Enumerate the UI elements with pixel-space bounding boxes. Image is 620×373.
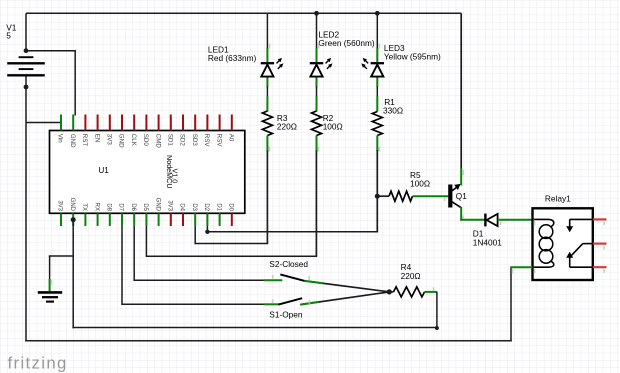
label NodeMCU	[165, 155, 174, 189]
pin CLK (U1 top 7)	[130, 115, 137, 147]
ground lead	[49, 279, 51, 291]
wire battery- column down	[25, 86, 27, 341]
svg-text:RSV: RSV	[203, 134, 210, 148]
svg-text:U1: U1	[99, 166, 110, 175]
relay Relay1 body	[533, 208, 593, 280]
svg-text:GND: GND	[118, 134, 125, 148]
label LED3	[384, 43, 441, 61]
transistor Q1	[448, 184, 461, 208]
wire D1 to Relay1	[498, 219, 533, 221]
pin GND (U1 top 6)	[118, 115, 125, 149]
svg-text:D2: D2	[203, 203, 209, 211]
pin CMD (U1 top 9)	[154, 115, 161, 149]
junction switches/R4	[387, 289, 392, 294]
svg-text:D0: D0	[228, 203, 234, 211]
svg-text:5: 5	[6, 30, 11, 40]
svg-text:RST: RST	[81, 134, 88, 147]
wire R5 to Q1 base	[413, 195, 449, 197]
relay coil pin bottom-left	[510, 266, 532, 268]
connection ticks	[52, 44, 605, 304]
svg-text:3V3: 3V3	[106, 134, 113, 146]
svg-text:100Ω: 100Ω	[323, 121, 343, 131]
wire D3 to R3 column	[195, 226, 268, 244]
wire relay coil return up	[510, 267, 512, 341]
ground	[38, 292, 62, 301]
pin D4 (U1 bottom 11)	[179, 203, 185, 226]
label Relay1	[545, 194, 571, 204]
pin D2 (U1 bottom 13)	[203, 203, 209, 226]
svg-text:A0: A0	[228, 134, 235, 142]
pin EN (U1 top 4)	[93, 115, 100, 143]
pin D1 (U1 bottom 14)	[215, 203, 221, 226]
switch S1 blade	[278, 298, 302, 304]
pin RX (U1 bottom 4)	[93, 203, 99, 226]
label Q1	[456, 191, 467, 201]
svg-text:100Ω: 100Ω	[410, 179, 430, 189]
svg-text:D4: D4	[179, 203, 185, 211]
switch S1 right wire to junction	[300, 292, 389, 305]
svg-text:SD3: SD3	[191, 134, 198, 147]
svg-text:3V3: 3V3	[57, 200, 63, 211]
pin Vin (U1 top 1)	[57, 115, 64, 144]
pin 3V3 (U1 bottom 1)	[57, 200, 63, 226]
svg-text:D6: D6	[130, 203, 136, 211]
wire Vin branch	[26, 122, 61, 124]
svg-text:EN: EN	[93, 134, 100, 143]
wire LED3 column	[376, 13, 378, 111]
wire R3 lead bottom	[266, 136, 268, 244]
wire R1 lead bottom	[376, 136, 378, 152]
pin SD3 (U1 top 12)	[191, 115, 198, 147]
wire battery+ branch down to U1 GND pin	[74, 50, 76, 116]
pin D5 (U1 bottom 8)	[142, 203, 148, 226]
label V1.0	[171, 169, 180, 184]
svg-text:fritzing: fritzing	[8, 353, 68, 372]
wire LED1 column	[266, 13, 268, 111]
wire R2 lead bottom	[316, 136, 318, 152]
LED LED2	[310, 58, 333, 77]
wire D5 to R2 column	[146, 226, 317, 257]
label R4	[401, 262, 421, 281]
svg-text:Relay1: Relay1	[545, 194, 571, 204]
wire GND bottom horizontal	[72, 327, 437, 329]
resistor R2	[312, 111, 322, 136]
svg-text:RSV: RSV	[215, 134, 222, 148]
wire R2 column down	[315, 151, 317, 257]
pin D0 (U1 bottom 15)	[228, 203, 234, 226]
pin D6 (U1 bottom 7)	[130, 203, 136, 226]
svg-text:D1: D1	[215, 203, 221, 211]
wire R4 down to GND rail	[435, 292, 439, 330]
pin 3V3 (U1 bottom 10)	[167, 200, 173, 226]
wire R1 column down	[376, 150, 378, 232]
svg-text:GND: GND	[69, 134, 76, 148]
wire ground branch	[49, 256, 74, 280]
pin 3V3 (U1 top 5)	[106, 115, 113, 146]
pin SD1 (U1 top 10)	[167, 115, 174, 147]
junction R5 node	[375, 194, 380, 199]
pin D7 (U1 bottom 6)	[118, 203, 124, 226]
pin RSV (U1 top 13)	[203, 115, 210, 148]
wire battery+ to rail	[25, 13, 27, 50]
svg-text:TX: TX	[81, 203, 87, 211]
wire R4 lead right	[425, 291, 438, 293]
resistor R1	[372, 112, 382, 136]
pin D8 (U1 bottom 5)	[106, 203, 112, 226]
relay coil	[534, 219, 554, 267]
wire U1 GND down	[72, 220, 74, 329]
switch S1 left contact	[264, 303, 280, 305]
wire bottom rail battery- to relay	[25, 340, 512, 342]
wire Q1 to D1	[460, 219, 485, 221]
pin SD2 (U1 top 11)	[179, 115, 186, 147]
relay switch contacts	[566, 219, 592, 267]
IC U1 NodeMCU body	[50, 131, 245, 214]
svg-text:GND: GND	[154, 198, 160, 212]
junction rail LED2	[314, 11, 319, 16]
label S2-Closed	[269, 259, 308, 269]
pin GND (U1 bottom 9)	[154, 198, 160, 226]
label S1-Open	[269, 309, 303, 319]
pin GND (U1 bottom 2)	[69, 198, 75, 226]
svg-text:330Ω: 330Ω	[383, 106, 403, 116]
pin A0 (U1 top 15)	[228, 115, 235, 142]
svg-text:SD1: SD1	[167, 134, 174, 147]
svg-text:3V3: 3V3	[167, 200, 173, 211]
svg-text:D3: D3	[191, 203, 197, 211]
pin GND (U1 top 2)	[69, 115, 76, 149]
svg-text:Red (633nm): Red (633nm)	[208, 53, 257, 63]
pin SD0 (U1 top 8)	[142, 115, 149, 147]
svg-text:220Ω: 220Ω	[401, 271, 421, 281]
label R3	[277, 113, 297, 132]
wire D6 to S2	[134, 226, 263, 281]
wire Q1 collector up	[460, 13, 462, 185]
svg-text:220Ω: 220Ω	[277, 121, 297, 131]
svg-text:CMD: CMD	[154, 134, 161, 149]
svg-text:S2-Closed: S2-Closed	[269, 259, 308, 269]
junction rail LED3	[375, 11, 380, 16]
LED LED3	[361, 58, 384, 77]
svg-text:D8: D8	[106, 203, 112, 211]
svg-text:1N4001: 1N4001	[473, 238, 502, 248]
resistor R3	[262, 111, 272, 136]
pin D3 (U1 bottom 12)	[191, 203, 197, 226]
switch S2 blade	[280, 274, 304, 281]
svg-text:SD2: SD2	[179, 134, 186, 147]
label LED1	[208, 44, 257, 63]
pin RSV (U1 top 14)	[215, 115, 222, 148]
svg-text:D7: D7	[118, 203, 124, 211]
label D1	[473, 229, 502, 248]
svg-text:RX: RX	[93, 203, 99, 211]
LED LED1	[261, 58, 284, 77]
label LED2	[318, 29, 374, 48]
svg-text:V1.0: V1.0	[171, 169, 180, 184]
wire battery+ to U1 GND pin (horizontal)	[26, 50, 75, 52]
label R2	[323, 113, 343, 132]
wire D7 to S1	[122, 226, 264, 305]
svg-text:Yellow (595nm): Yellow (595nm)	[384, 51, 441, 61]
wire top rail	[26, 12, 461, 14]
switch S2 right wire to junction	[304, 281, 389, 292]
svg-text:SD0: SD0	[142, 134, 149, 147]
pin RST (U1 top 3)	[81, 115, 88, 147]
svg-text:Q1: Q1	[456, 191, 467, 201]
diode D1	[485, 214, 497, 227]
label U1	[99, 166, 110, 175]
svg-text:GND: GND	[69, 198, 75, 212]
resistor R5	[389, 191, 413, 201]
relay pins right	[593, 219, 607, 267]
label R1	[383, 97, 403, 115]
svg-text:Vin: Vin	[57, 134, 64, 143]
resistor R4	[389, 287, 424, 297]
label V1	[6, 22, 17, 40]
svg-text:CLK: CLK	[130, 134, 137, 147]
switch S2 left contact	[264, 279, 283, 281]
junction U1 GND pin	[71, 217, 76, 222]
svg-text:D5: D5	[142, 203, 148, 211]
pin TX (U1 bottom 3)	[81, 203, 87, 226]
wire Q1 emitter down	[460, 207, 462, 221]
wire D2 to R1 column	[205, 226, 378, 234]
wire LED2 column	[316, 13, 318, 111]
battery V1	[7, 48, 45, 89]
svg-text:S1-Open: S1-Open	[269, 309, 303, 319]
wire R5 lead left	[377, 195, 389, 197]
label R5	[410, 170, 430, 189]
fritzing watermark	[8, 353, 68, 372]
svg-text:Green (560nm): Green (560nm)	[318, 38, 374, 48]
